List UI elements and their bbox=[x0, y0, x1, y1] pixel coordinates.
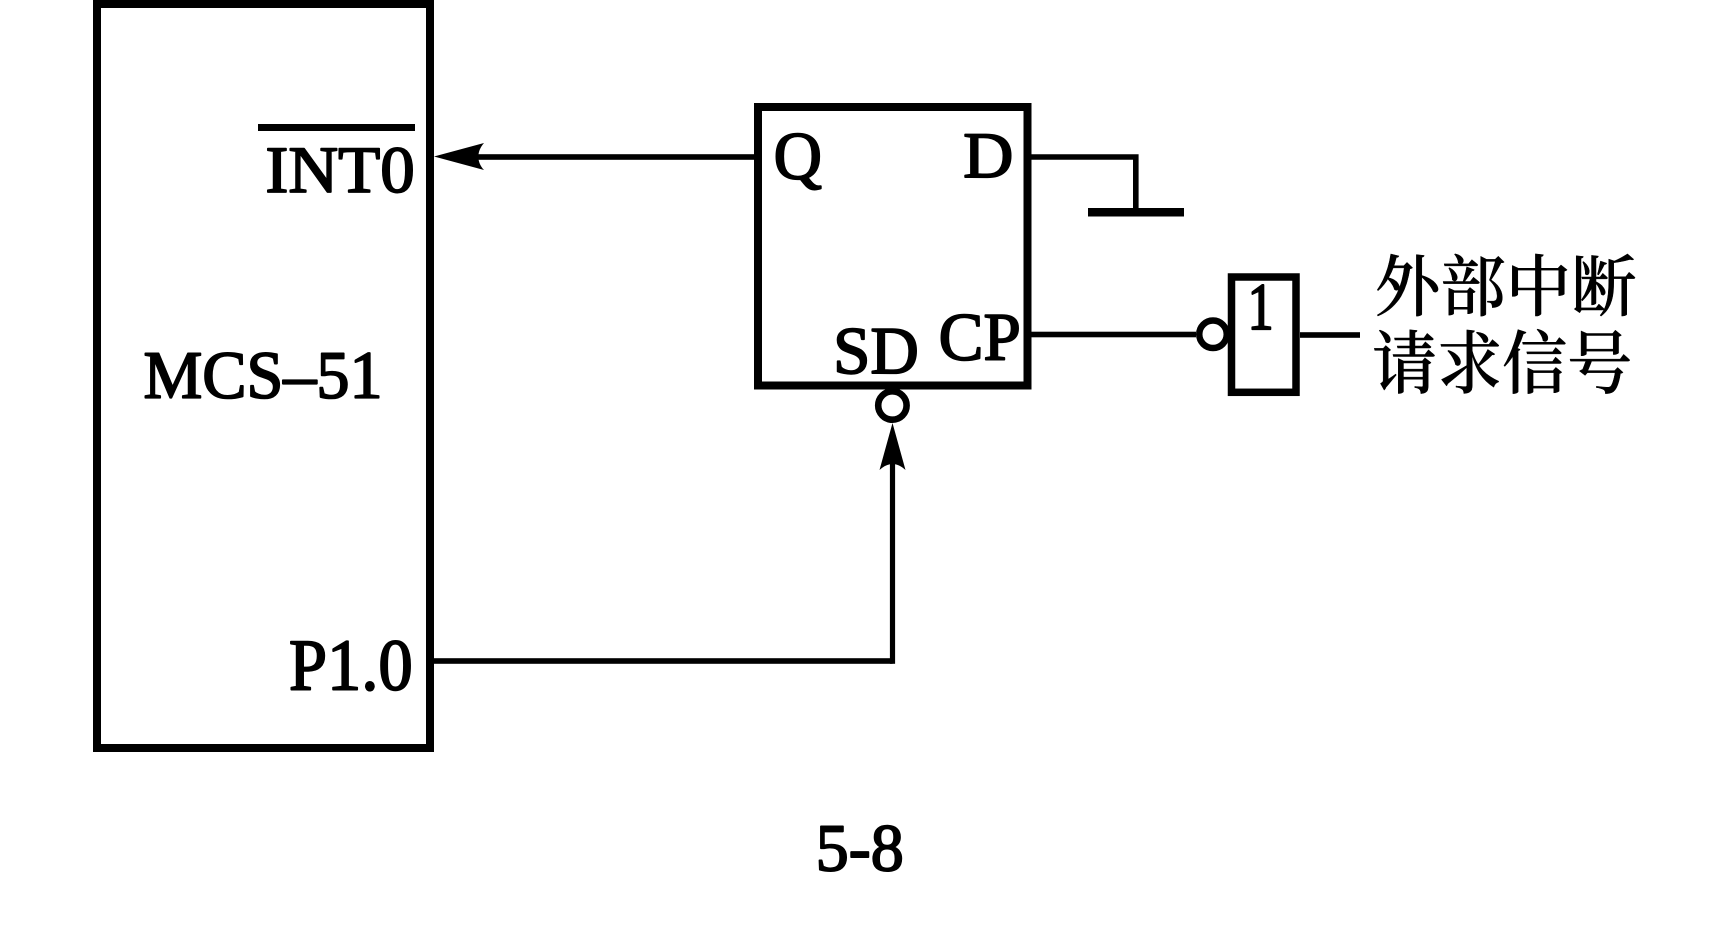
pin label CP bbox=[941, 315, 1018, 361]
SD input bubble bbox=[878, 391, 906, 419]
ground bbox=[1088, 208, 1184, 217]
pin label SD bbox=[838, 329, 916, 374]
arrowhead into INT0 bbox=[434, 143, 484, 170]
wire CP to inverter bbox=[1027, 332, 1196, 338]
inverter input bubble bbox=[1199, 321, 1227, 349]
wire P1.0 horizontal bbox=[434, 658, 893, 664]
wire P1.0 to SD vertical bbox=[890, 455, 895, 664]
wire D to ground bbox=[1027, 157, 1136, 210]
MCS-51 box U1 bbox=[97, 4, 430, 748]
gate symbol 1 bbox=[1252, 285, 1270, 329]
label line2 qing-qiu-xin-hao bbox=[1374, 329, 1629, 394]
label line1 wai-bu-zhong-duan bbox=[1377, 254, 1635, 316]
arrowhead into SD bbox=[880, 423, 906, 470]
pin label P1.0 bbox=[291, 641, 410, 691]
label MCS-51 bbox=[145, 353, 378, 399]
pin label Q bbox=[776, 134, 820, 190]
inverter gate U3 bbox=[1232, 277, 1297, 392]
caption 5-8 bbox=[820, 826, 902, 871]
D flip-flop box U2 bbox=[758, 107, 1028, 386]
wire Q to INT0 bbox=[474, 154, 758, 160]
pin label INT0 bbox=[268, 148, 412, 193]
pin label INT0 overline bbox=[258, 124, 415, 131]
pin label D bbox=[965, 134, 1010, 177]
wire inverter output bbox=[1300, 332, 1360, 338]
